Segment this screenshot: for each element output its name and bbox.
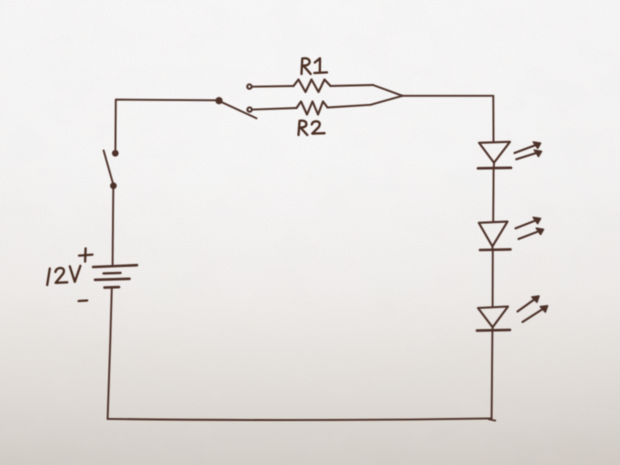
battery B1 plate short (bottom cell -) [105, 286, 120, 289]
LED D2 arrow 2 [519, 230, 542, 239]
wire: R2 branch left lead [252, 108, 296, 110]
battery B1 plate long (top cell +) [93, 265, 137, 267]
resistor R1 [294, 80, 331, 93]
LED D2 apex lead [491, 246, 493, 250]
LED D2 arrow 1 [516, 219, 539, 228]
label + (battery positive) [79, 248, 93, 261]
wire: top right horizontal to corner [403, 95, 494, 97]
battery B1 plate long (bottom cell +) [95, 279, 130, 280]
LED D3 triangle [478, 307, 508, 328]
label - (battery negative) [79, 299, 88, 302]
wire: R1 branch left lead [252, 85, 294, 88]
resistor R2 [297, 102, 328, 115]
LED D3 arrow 1 [518, 298, 538, 312]
battery B1 plate short (top cell -) [104, 272, 121, 275]
LED D3 apex lead [492, 327, 494, 330]
LED D3 arrow 2 [523, 307, 546, 322]
wire: top-left, from switch top terminal up and right to selector junction [115, 100, 218, 151]
switch S2 (selector blade from junction toward R2 terminal) [221, 102, 256, 118]
wire: bottom horizontal [108, 418, 492, 420]
wire: between D2 and D3 [492, 250, 494, 307]
label R1 [302, 58, 328, 74]
wire: R2 to convergence [371, 96, 403, 105]
wire: R1 to convergence [373, 85, 403, 96]
wire: bottom right tick [489, 419, 495, 420]
LED D1 triangle [479, 142, 510, 163]
switch S1 top terminal dot [113, 151, 118, 156]
LED D1 apex lead [493, 163, 495, 168]
switch S1 bottom terminal dot [111, 183, 116, 188]
LED D1 arrow 2 [516, 152, 539, 159]
wire: right vertical down to LED D1 [492, 96, 494, 142]
LED D2 triangle [479, 222, 508, 247]
wire: R2 branch right lead [328, 105, 371, 108]
wire: between D1 and D2 [492, 168, 494, 222]
wire: left vertical from bottom up to battery minus plate [108, 288, 112, 419]
LED D1 arrow 1 [515, 144, 539, 153]
node: R1 terminal dot [247, 84, 251, 88]
node: selector junction dot [216, 98, 221, 103]
LED D3 cathode bar [477, 329, 510, 332]
wire: battery plus up to switch bottom terminal [112, 188, 115, 266]
wire: right vertical down to bottom corner [491, 330, 494, 418]
LED D1 cathode bar [478, 167, 511, 170]
label 12V [47, 266, 80, 285]
wire: R1 branch right lead [331, 85, 374, 86]
LED D2 cathode bar [480, 248, 511, 251]
node: R2 terminal dot [247, 107, 251, 111]
switch S1 blade (open) [104, 151, 113, 184]
label R2 [299, 121, 325, 135]
